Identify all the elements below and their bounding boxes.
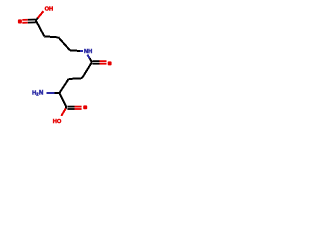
svg-text:OH: OH xyxy=(45,7,54,13)
svg-text:H2N: H2N xyxy=(32,90,43,96)
svg-text:NH: NH xyxy=(84,49,92,55)
svg-text:HO: HO xyxy=(53,119,62,125)
